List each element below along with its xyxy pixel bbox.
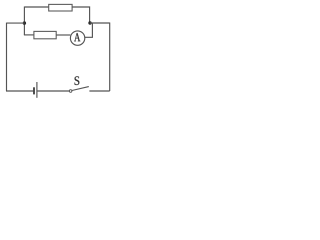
resistor R2 [34, 31, 56, 38]
wire: R1 right to top-right corner [72, 7, 90, 23]
wire: outer-left vertical [6, 23, 8, 91]
wire: battery to switch [37, 90, 69, 92]
wire: node to right edge [90, 22, 110, 24]
node: junction dot left [23, 21, 26, 24]
node: junction dot right [88, 21, 91, 24]
ammeter label A [74, 33, 80, 41]
wire: right vertical down to bottom loop [109, 23, 111, 92]
battery BT1 positive long plate [36, 82, 38, 98]
battery BT1 negative short plate [33, 87, 35, 94]
switch S blade [72, 87, 89, 91]
wire: R2 branch corner to R2 [24, 34, 34, 36]
wire: R2 to ammeter [56, 34, 70, 36]
wire: node left branch to outer loop [7, 22, 25, 24]
switch label S [75, 76, 80, 85]
ammeter U1 circle [70, 31, 84, 45]
switch S pivot terminal [69, 90, 72, 93]
resistor R1 [49, 4, 72, 11]
wire: bottom-left to battery [6, 90, 33, 92]
wire: top-left horizontal from corner to R1 [24, 6, 49, 8]
wire: switch to bottom-right corner [89, 90, 109, 92]
wire: ammeter right up to node line [85, 23, 93, 38]
wire: left vertical from top corner down to R2 branch corner [23, 7, 25, 35]
